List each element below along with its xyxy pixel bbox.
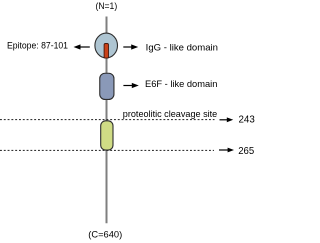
svg-text:E6F - like domain: E6F - like domain bbox=[145, 79, 217, 90]
svg-text:proteolitic cleavage site: proteolitic cleavage site bbox=[123, 109, 217, 120]
svg-text:243: 243 bbox=[239, 114, 255, 126]
svg-text:(N=1): (N=1) bbox=[96, 1, 118, 12]
svg-text:265: 265 bbox=[238, 145, 254, 157]
svg-text:(C=640): (C=640) bbox=[88, 230, 122, 241]
svg-text:Epitope: 87-101: Epitope: 87-101 bbox=[7, 41, 68, 52]
svg-text:IgG - like domain: IgG - like domain bbox=[146, 42, 218, 53]
